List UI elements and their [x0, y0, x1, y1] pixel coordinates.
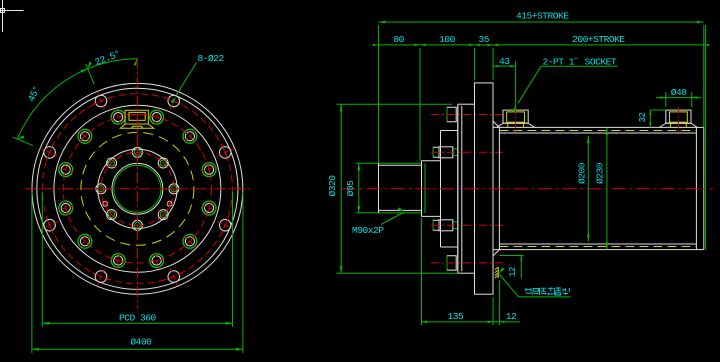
bolt hole D22 #5	[41, 217, 58, 234]
small hole #1	[102, 200, 109, 207]
svg-text:Ø48: Ø48	[671, 87, 688, 98]
rod circle D95	[112, 163, 163, 214]
dimension 12 face	[499, 256, 523, 279]
front view circle D150	[98, 149, 177, 228]
leader 8-D22	[171, 63, 197, 104]
dimension D230	[606, 128, 609, 249]
inner hole #3	[130, 145, 144, 159]
seal line top	[499, 130, 696, 132]
dimension 415+STROKE	[378, 21, 703, 163]
bolt hole D22 #4	[41, 144, 58, 161]
socket screw #6	[58, 162, 74, 177]
dimension 12 pilot	[488, 280, 520, 325]
PT socket plug left	[497, 107, 535, 133]
dimension 43	[493, 61, 516, 108]
inner hole #7	[130, 218, 144, 232]
socket screw #10	[149, 253, 164, 269]
bolt hole D22 #6	[93, 268, 110, 285]
inner hole pitch circle centerline	[101, 152, 174, 225]
dimension D48	[656, 92, 702, 107]
socket screw #5	[78, 129, 92, 143]
tube inner top	[499, 132, 696, 134]
PT socket plug right	[659, 107, 697, 133]
socket screw #9	[111, 253, 126, 269]
dimension 32	[649, 110, 666, 127]
svg-text:2-PT 1˝ SOCKET: 2-PT 1˝ SOCKET	[543, 56, 617, 67]
svg-text:415+STROKE: 415+STROKE	[516, 11, 569, 22]
front view horizontal centerline	[25, 188, 250, 190]
socket screw #1	[201, 162, 217, 177]
svg-text:80: 80	[393, 34, 404, 45]
bolt hole D22 #2	[165, 93, 182, 110]
rod left end	[378, 163, 380, 213]
small hole #2	[166, 200, 173, 207]
socket screw #3	[149, 109, 164, 125]
piston rod thread major line top	[356, 162, 422, 164]
inner hole #5	[94, 182, 108, 196]
mounting face mark	[495, 267, 499, 278]
port boss front view	[120, 110, 154, 128]
svg-text:12: 12	[508, 267, 518, 277]
inner hole #1	[167, 182, 181, 196]
svg-text:Ø200: Ø200	[577, 162, 588, 184]
rod shoulder line	[421, 161, 423, 217]
bolt hole D22 #7	[165, 268, 182, 285]
dimension chain 80/100/35/200	[373, 44, 709, 161]
cylinder head D320	[458, 104, 475, 273]
socket screw #4	[111, 109, 126, 125]
svg-text:Ø400: Ø400	[130, 336, 152, 347]
front view vertical centerline	[136, 58, 138, 308]
leader M90x2P	[381, 207, 405, 224]
svg-text:Ø320: Ø320	[327, 175, 338, 197]
dimension D200	[587, 136, 590, 242]
socket screw #12	[201, 200, 217, 215]
thread runout line	[424, 163, 426, 213]
gland neck bottom	[422, 215, 441, 217]
dimension D320	[337, 104, 458, 273]
cylinder body D230	[493, 121, 704, 256]
leader PT socket	[512, 66, 618, 112]
svg-text:M90x2P: M90x2P	[352, 225, 384, 236]
side view centerline	[342, 188, 713, 190]
angular dimension 22.5 deg	[86, 59, 138, 85]
gland neck top	[422, 160, 441, 162]
inner hole #8	[158, 210, 168, 220]
angular dimension 45 deg	[13, 69, 88, 146]
socket screw #8	[78, 234, 92, 248]
gland screw head #2	[431, 256, 503, 270]
socket screw #2	[183, 129, 197, 143]
svg-text:135: 135	[448, 311, 465, 322]
socket screw #11	[183, 234, 197, 248]
front view body circle D320	[54, 105, 221, 272]
dimension D95	[357, 163, 360, 213]
bolt hole D22 #8	[217, 217, 234, 234]
inner hole #2	[158, 158, 168, 168]
seal line bottom	[499, 246, 696, 248]
bolt hole D22 #3	[93, 93, 110, 110]
socket screw #7	[58, 200, 74, 215]
gland screw head #1	[431, 107, 503, 121]
inner hole #4	[107, 158, 117, 168]
gland body	[441, 106, 458, 271]
inner hole #6	[107, 210, 117, 220]
tube inner bottom	[499, 243, 696, 245]
yellow pitch circle	[81, 132, 194, 245]
inner screw head #2	[431, 220, 503, 231]
svg-text:8-Ø22: 8-Ø22	[198, 53, 225, 64]
mounting flange D400	[475, 83, 494, 294]
svg-text:Ø95: Ø95	[345, 180, 356, 197]
bolt circle PCD360 centerline	[42, 94, 232, 284]
inner screw head #1	[431, 147, 503, 158]
dimension D400	[32, 192, 243, 354]
svg-text:PCD 360: PCD 360	[119, 312, 157, 323]
head inner line	[461, 106, 463, 271]
piston rod D95	[379, 163, 422, 213]
construction line right end	[705, 25, 707, 250]
svg-text:200+STROKE: 200+STROKE	[572, 34, 625, 45]
svg-text:100: 100	[439, 34, 456, 45]
front view outer circle D400	[32, 83, 243, 294]
screw pitch circle centerline	[63, 115, 211, 263]
dimension 135	[422, 218, 494, 325]
svg-text:Ø230: Ø230	[595, 162, 606, 184]
thread circle M90	[114, 165, 161, 212]
svg-text:35: 35	[478, 34, 489, 45]
svg-text:12: 12	[506, 311, 517, 322]
svg-text:43: 43	[499, 56, 510, 67]
crosshair cursor	[0, 0, 24, 32]
dimension PCD 360	[42, 192, 232, 328]
svg-text:32: 32	[638, 113, 648, 123]
bolt hole D22 #1	[217, 144, 234, 161]
label cylinder mounting face	[499, 267, 571, 297]
piston rod thread major line bottom	[356, 212, 422, 214]
front view step circle	[37, 88, 238, 289]
